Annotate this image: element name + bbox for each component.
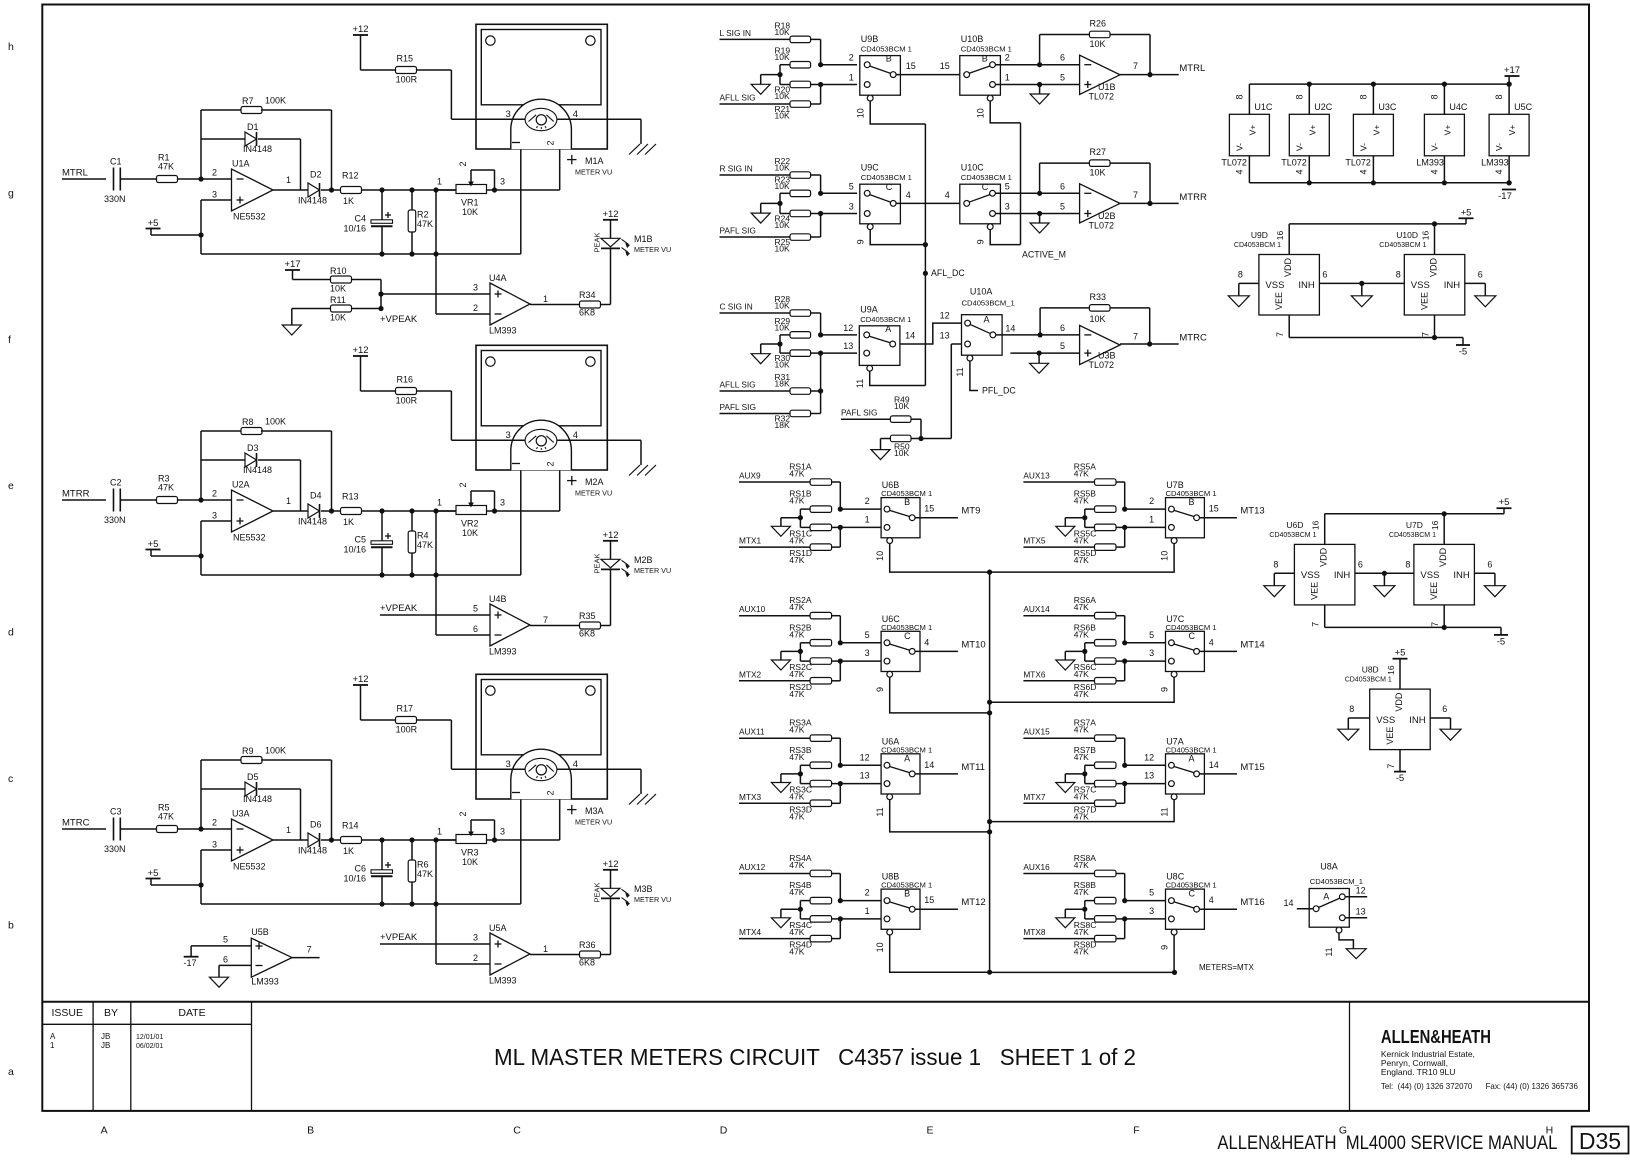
svg-text:2: 2 xyxy=(546,790,556,795)
svg-text:13: 13 xyxy=(843,341,853,351)
svg-text:TL072: TL072 xyxy=(1281,158,1307,168)
svg-text:10: 10 xyxy=(875,942,885,952)
svg-text:10K: 10K xyxy=(775,27,790,37)
svg-text:V-: V- xyxy=(1234,143,1244,151)
svg-text:+5: +5 xyxy=(1499,497,1510,508)
svg-text:5: 5 xyxy=(1060,73,1065,83)
svg-text:6: 6 xyxy=(223,955,228,965)
svg-text:4: 4 xyxy=(1429,169,1439,174)
svg-text:MTX4: MTX4 xyxy=(739,927,762,937)
svg-text:13: 13 xyxy=(1144,771,1154,781)
svg-text:47K: 47K xyxy=(789,629,804,639)
svg-text:47K: 47K xyxy=(789,860,804,870)
svg-text:MTX8: MTX8 xyxy=(1023,927,1046,937)
svg-text:1: 1 xyxy=(50,1041,55,1050)
svg-text:MTX7: MTX7 xyxy=(1023,792,1046,802)
svg-text:U1C: U1C xyxy=(1254,102,1273,112)
svg-text:10K: 10K xyxy=(1090,168,1106,178)
svg-text:+12: +12 xyxy=(352,674,368,685)
svg-text:11: 11 xyxy=(955,367,965,376)
svg-text:4: 4 xyxy=(1209,637,1214,647)
svg-text:H: H xyxy=(1546,1125,1554,1137)
svg-text:100R: 100R xyxy=(396,725,418,735)
svg-text:+5: +5 xyxy=(148,539,159,550)
svg-text:V-: V- xyxy=(1494,143,1504,151)
svg-text:VR3: VR3 xyxy=(461,848,479,858)
svg-text:10/16: 10/16 xyxy=(343,545,366,555)
svg-text:R4: R4 xyxy=(417,531,429,541)
svg-text:C1: C1 xyxy=(110,157,122,167)
svg-text:6: 6 xyxy=(1478,269,1483,279)
svg-text:47K: 47K xyxy=(789,689,804,699)
svg-text:10K: 10K xyxy=(775,301,790,311)
svg-text:LM393: LM393 xyxy=(489,647,517,657)
svg-text:10K: 10K xyxy=(775,360,790,370)
svg-text:47K: 47K xyxy=(1074,689,1089,699)
svg-text:6: 6 xyxy=(1060,323,1065,333)
svg-text:14: 14 xyxy=(905,330,915,340)
svg-text:METER VU: METER VU xyxy=(575,818,612,827)
svg-text:6: 6 xyxy=(473,624,478,634)
svg-text:D3: D3 xyxy=(247,443,259,453)
svg-text:11: 11 xyxy=(1324,947,1334,956)
svg-text:3: 3 xyxy=(1005,202,1010,212)
svg-text:VDD: VDD xyxy=(1438,547,1448,567)
svg-text:10K: 10K xyxy=(894,401,909,411)
svg-text:47K: 47K xyxy=(1074,496,1089,506)
svg-text:VEE: VEE xyxy=(1385,727,1395,745)
svg-text:3: 3 xyxy=(473,283,478,293)
svg-text:5: 5 xyxy=(223,935,228,945)
svg-text:47K: 47K xyxy=(789,752,804,762)
svg-text:3: 3 xyxy=(506,109,511,120)
svg-text:2: 2 xyxy=(473,953,478,963)
svg-text:LM393: LM393 xyxy=(1416,158,1444,168)
svg-text:PEAK: PEAK xyxy=(593,232,602,252)
svg-text:+5: +5 xyxy=(1461,207,1472,218)
svg-text:10K: 10K xyxy=(775,163,790,173)
svg-text:CD4053BCM_1: CD4053BCM_1 xyxy=(962,299,1015,308)
svg-text:METER VU: METER VU xyxy=(575,489,612,498)
svg-text:A: A xyxy=(984,315,990,325)
svg-text:AFL_DC: AFL_DC xyxy=(931,268,965,278)
svg-text:+17: +17 xyxy=(1504,65,1520,76)
svg-text:+5: +5 xyxy=(1395,648,1406,659)
svg-text:8: 8 xyxy=(1396,269,1401,279)
svg-text:LM393: LM393 xyxy=(489,976,517,986)
svg-text:L SIG IN: L SIG IN xyxy=(720,28,752,38)
svg-text:AFLL SIG: AFLL SIG xyxy=(720,380,756,390)
svg-text:VSS: VSS xyxy=(1376,715,1395,726)
svg-text:METER VU: METER VU xyxy=(634,566,671,575)
svg-text:ML MASTER METERS CIRCUIT C43: ML MASTER METERS CIRCUIT C4357 issue 1 S… xyxy=(494,1044,1136,1070)
svg-text:100K: 100K xyxy=(265,417,286,427)
svg-text:Tel: (44) (0) 1326 372070: Tel: (44) (0) 1326 372070 Fax: (44) (0) … xyxy=(1381,1081,1578,1091)
svg-text:R2: R2 xyxy=(417,210,429,220)
svg-text:-5: -5 xyxy=(1396,773,1404,784)
svg-text:U9D: U9D xyxy=(1251,230,1268,240)
svg-text:V-: V- xyxy=(1358,143,1368,151)
svg-text:4: 4 xyxy=(573,109,578,120)
svg-text:a: a xyxy=(8,1066,14,1078)
svg-text:100R: 100R xyxy=(396,396,418,406)
svg-text:-17: -17 xyxy=(1498,191,1512,202)
svg-text:2: 2 xyxy=(458,811,468,816)
svg-text:U2C: U2C xyxy=(1314,102,1333,112)
svg-text:14: 14 xyxy=(924,760,934,770)
svg-text:VDD: VDD xyxy=(1283,257,1293,277)
svg-text:47K: 47K xyxy=(789,725,804,735)
svg-text:+VPEAK: +VPEAK xyxy=(380,314,418,325)
svg-text:15: 15 xyxy=(940,61,950,71)
svg-text:10: 10 xyxy=(975,108,985,118)
svg-text:330N: 330N xyxy=(104,194,126,204)
svg-text:M3B: M3B xyxy=(634,884,653,894)
svg-text:JB: JB xyxy=(101,1041,110,1050)
svg-text:R13: R13 xyxy=(342,492,359,502)
svg-text:15: 15 xyxy=(924,504,934,514)
svg-text:2: 2 xyxy=(212,818,217,828)
svg-text:D1: D1 xyxy=(247,122,259,132)
svg-text:15: 15 xyxy=(1209,504,1219,514)
svg-text:47K: 47K xyxy=(1074,792,1089,802)
svg-text:TL072: TL072 xyxy=(1089,221,1115,231)
svg-text:10K: 10K xyxy=(775,52,790,62)
svg-text:C: C xyxy=(1189,631,1196,641)
svg-text:47K: 47K xyxy=(789,887,804,897)
svg-text:11: 11 xyxy=(1160,807,1170,816)
svg-text:9: 9 xyxy=(1160,687,1170,692)
svg-text:47K: 47K xyxy=(1074,725,1089,735)
svg-text:MT14: MT14 xyxy=(1240,639,1264,650)
svg-text:AUX11: AUX11 xyxy=(739,727,765,737)
svg-text:3: 3 xyxy=(500,177,505,187)
svg-text:CD4053BCM 1: CD4053BCM 1 xyxy=(861,45,912,54)
svg-text:1: 1 xyxy=(1005,73,1010,83)
svg-text:IN4148: IN4148 xyxy=(298,846,327,856)
svg-text:MTRL: MTRL xyxy=(62,168,88,179)
svg-text:V+: V+ xyxy=(1442,125,1452,136)
svg-text:U10C: U10C xyxy=(961,163,985,173)
svg-text:47K: 47K xyxy=(789,792,804,802)
svg-text:V+: V+ xyxy=(1371,125,1381,136)
svg-text:14: 14 xyxy=(1283,898,1293,908)
svg-text:METERS=MTX: METERS=MTX xyxy=(1199,963,1255,972)
svg-text:12/01/01: 12/01/01 xyxy=(136,1034,163,1041)
svg-text:10K: 10K xyxy=(462,207,478,217)
svg-text:10K: 10K xyxy=(775,111,790,121)
svg-text:11: 11 xyxy=(875,807,885,816)
svg-text:B: B xyxy=(886,54,892,64)
svg-text:5: 5 xyxy=(1149,888,1154,898)
svg-text:R6: R6 xyxy=(417,860,429,870)
svg-text:MTRC: MTRC xyxy=(1179,333,1207,344)
svg-text:1: 1 xyxy=(543,294,548,304)
svg-text:R26: R26 xyxy=(1090,19,1107,29)
svg-text:CD4053BCM 1: CD4053BCM 1 xyxy=(860,315,911,324)
svg-text:3: 3 xyxy=(473,933,478,943)
svg-text:330N: 330N xyxy=(104,844,126,854)
svg-text:2: 2 xyxy=(458,482,468,487)
svg-text:16: 16 xyxy=(1430,520,1440,530)
svg-text:VR2: VR2 xyxy=(461,519,479,529)
svg-text:METER VU: METER VU xyxy=(634,245,671,254)
svg-text:U1B: U1B xyxy=(1098,82,1116,92)
svg-text:d: d xyxy=(8,627,14,639)
svg-text:M3A: M3A xyxy=(585,806,604,816)
svg-text:A: A xyxy=(1323,892,1329,902)
svg-text:9: 9 xyxy=(1160,945,1170,950)
svg-text:MTRL: MTRL xyxy=(1179,63,1205,74)
svg-text:B: B xyxy=(904,497,910,507)
svg-text:3: 3 xyxy=(212,511,217,521)
svg-text:U4C: U4C xyxy=(1449,102,1468,112)
svg-text:10: 10 xyxy=(875,551,885,561)
svg-text:2: 2 xyxy=(1149,496,1154,506)
svg-text:MT12: MT12 xyxy=(961,897,985,908)
svg-text:MT9: MT9 xyxy=(961,506,980,517)
svg-text:R14: R14 xyxy=(342,821,359,831)
svg-text:INH: INH xyxy=(1298,280,1315,291)
svg-text:47K: 47K xyxy=(1074,555,1089,565)
svg-text:2: 2 xyxy=(212,168,217,178)
svg-text:12: 12 xyxy=(1144,752,1154,762)
svg-text:12: 12 xyxy=(940,311,950,321)
svg-text:+12: +12 xyxy=(602,859,618,870)
svg-text:9: 9 xyxy=(855,239,865,244)
svg-text:VEE: VEE xyxy=(1420,292,1430,310)
svg-text:TL072: TL072 xyxy=(1089,92,1115,102)
svg-text:100K: 100K xyxy=(265,96,286,106)
svg-text:10: 10 xyxy=(855,108,865,118)
svg-text:6K8: 6K8 xyxy=(579,308,595,318)
svg-text:5: 5 xyxy=(849,181,854,191)
svg-text:100R: 100R xyxy=(396,75,418,85)
svg-text:VDD: VDD xyxy=(1429,257,1439,277)
svg-text:4: 4 xyxy=(1494,169,1504,174)
svg-text:IN4148: IN4148 xyxy=(243,794,272,804)
svg-text:5: 5 xyxy=(1060,202,1065,212)
svg-text:V-: V- xyxy=(1429,143,1439,151)
svg-text:4: 4 xyxy=(1234,169,1244,174)
svg-text:h: h xyxy=(8,41,14,53)
svg-text:M1A: M1A xyxy=(585,156,604,166)
svg-text:M2A: M2A xyxy=(585,477,604,487)
svg-text:C: C xyxy=(886,182,893,192)
svg-text:3: 3 xyxy=(212,840,217,850)
svg-text:6: 6 xyxy=(1358,559,1363,569)
svg-text:A: A xyxy=(101,1125,108,1137)
svg-text:R12: R12 xyxy=(342,171,359,181)
svg-text:47K: 47K xyxy=(1074,860,1089,870)
svg-text:16: 16 xyxy=(1421,231,1431,241)
svg-text:2: 2 xyxy=(849,53,854,63)
svg-text:15: 15 xyxy=(924,895,934,905)
svg-text:18K: 18K xyxy=(775,420,790,430)
svg-text:2: 2 xyxy=(546,461,556,466)
svg-text:+17: +17 xyxy=(284,259,300,270)
svg-text:A: A xyxy=(885,324,891,334)
svg-text:ISSUE: ISSUE xyxy=(51,1007,83,1019)
svg-text:8: 8 xyxy=(1238,269,1243,279)
svg-text:2: 2 xyxy=(546,140,556,145)
svg-text:A: A xyxy=(904,753,910,763)
svg-text:1: 1 xyxy=(286,175,291,185)
svg-text:g: g xyxy=(8,187,14,199)
svg-text:A: A xyxy=(50,1032,56,1041)
svg-text:U5A: U5A xyxy=(489,923,507,933)
svg-text:R11: R11 xyxy=(330,295,346,305)
svg-text:V+: V+ xyxy=(1507,125,1517,136)
svg-text:10K: 10K xyxy=(462,857,478,867)
svg-text:AFLL SIG: AFLL SIG xyxy=(720,93,756,103)
svg-text:47K: 47K xyxy=(789,669,804,679)
svg-text:13: 13 xyxy=(860,771,870,781)
svg-text:C: C xyxy=(1189,889,1196,899)
svg-text:VDD: VDD xyxy=(1394,692,1404,712)
svg-text:AUX13: AUX13 xyxy=(1023,471,1050,481)
svg-text:c: c xyxy=(8,773,13,785)
svg-text:47K: 47K xyxy=(417,869,433,879)
svg-text:VSS: VSS xyxy=(1301,570,1320,581)
svg-text:U8A: U8A xyxy=(1320,862,1338,872)
svg-text:3: 3 xyxy=(849,202,854,212)
svg-text:DATE: DATE xyxy=(178,1007,205,1019)
svg-text:R34: R34 xyxy=(579,290,596,300)
svg-text:R10: R10 xyxy=(330,266,347,276)
svg-text:U2B: U2B xyxy=(1098,211,1116,221)
svg-text:10K: 10K xyxy=(462,528,478,538)
svg-text:MT15: MT15 xyxy=(1240,762,1264,773)
svg-text:MTRC: MTRC xyxy=(62,818,90,829)
svg-text:47K: 47K xyxy=(789,496,804,506)
svg-text:U10B: U10B xyxy=(961,34,984,44)
svg-text:47K: 47K xyxy=(789,469,804,479)
svg-text:14: 14 xyxy=(1005,324,1015,334)
svg-text:13: 13 xyxy=(1356,907,1366,917)
svg-text:MTX5: MTX5 xyxy=(1023,536,1046,546)
svg-text:14: 14 xyxy=(1209,760,1219,770)
svg-text:D2: D2 xyxy=(310,170,322,180)
svg-text:+5: +5 xyxy=(148,868,159,879)
svg-text:R8: R8 xyxy=(242,417,254,427)
svg-text:LM393: LM393 xyxy=(251,977,279,987)
svg-text:C: C xyxy=(982,182,989,192)
svg-text:England. TR10 9LU: England. TR10 9LU xyxy=(1381,1067,1456,1077)
svg-text:R16: R16 xyxy=(397,375,414,385)
svg-text:1: 1 xyxy=(286,496,291,506)
svg-text:CD4053BCM 1: CD4053BCM 1 xyxy=(1389,532,1436,539)
svg-text:7: 7 xyxy=(1386,764,1396,769)
svg-text:V+: V+ xyxy=(1247,125,1257,136)
svg-text:MTX2: MTX2 xyxy=(739,669,762,679)
svg-text:7: 7 xyxy=(1421,332,1431,337)
svg-text:3: 3 xyxy=(506,759,511,770)
svg-text:R35: R35 xyxy=(579,611,596,621)
svg-text:INH: INH xyxy=(1453,570,1470,581)
svg-text:C SIG IN: C SIG IN xyxy=(720,302,753,312)
svg-text:12: 12 xyxy=(860,752,870,762)
svg-text:B: B xyxy=(307,1125,314,1137)
svg-text:CD4053BCM 1: CD4053BCM 1 xyxy=(1234,242,1281,249)
svg-text:METER VU: METER VU xyxy=(575,168,612,177)
svg-text:1: 1 xyxy=(437,177,442,187)
svg-text:C: C xyxy=(513,1125,521,1137)
svg-text:7: 7 xyxy=(1275,332,1285,337)
svg-text:10K: 10K xyxy=(894,448,909,458)
svg-text:R17: R17 xyxy=(397,704,414,714)
svg-text:IN4148: IN4148 xyxy=(298,517,327,527)
svg-text:7: 7 xyxy=(543,615,548,625)
svg-text:M2B: M2B xyxy=(634,555,653,565)
svg-text:INH: INH xyxy=(1444,280,1461,291)
svg-text:1: 1 xyxy=(1149,514,1154,524)
svg-text:U10A: U10A xyxy=(970,287,993,297)
svg-text:47K: 47K xyxy=(1074,535,1089,545)
svg-text:MTX3: MTX3 xyxy=(739,792,762,802)
svg-text:U10D: U10D xyxy=(1396,230,1418,240)
svg-text:+5: +5 xyxy=(148,218,159,229)
svg-text:1: 1 xyxy=(437,827,442,837)
svg-text:+12: +12 xyxy=(352,24,368,35)
svg-text:D5: D5 xyxy=(247,772,259,782)
svg-text:CD4053BCM 1: CD4053BCM 1 xyxy=(1345,677,1392,684)
svg-text:330N: 330N xyxy=(104,515,126,525)
svg-text:PEAK: PEAK xyxy=(593,882,602,902)
svg-text:2: 2 xyxy=(865,496,870,506)
svg-text:C4: C4 xyxy=(354,214,366,224)
svg-text:CD4053BCM 1: CD4053BCM 1 xyxy=(1379,242,1426,249)
svg-text:+12: +12 xyxy=(602,530,618,541)
svg-text:U3C: U3C xyxy=(1378,102,1397,112)
svg-text:C5: C5 xyxy=(354,535,366,545)
svg-text:9: 9 xyxy=(875,687,885,692)
svg-text:2: 2 xyxy=(458,161,468,166)
svg-text:MT10: MT10 xyxy=(961,639,985,650)
svg-text:VSS: VSS xyxy=(1411,280,1430,291)
svg-text:8: 8 xyxy=(1494,94,1504,99)
svg-text:e: e xyxy=(8,480,14,492)
svg-text:AUX10: AUX10 xyxy=(739,604,766,614)
svg-text:VEE: VEE xyxy=(1310,582,1320,600)
svg-text:U6D: U6D xyxy=(1286,520,1303,530)
svg-text:10K: 10K xyxy=(1090,314,1106,324)
svg-text:4: 4 xyxy=(1358,169,1368,174)
svg-text:C: C xyxy=(904,631,911,641)
svg-text:CD4053BCM 1: CD4053BCM 1 xyxy=(861,173,912,182)
svg-text:B: B xyxy=(1189,497,1195,507)
svg-text:5: 5 xyxy=(865,630,870,640)
svg-text:5: 5 xyxy=(1060,341,1065,351)
svg-text:U5C: U5C xyxy=(1514,102,1533,112)
svg-text:47K: 47K xyxy=(789,927,804,937)
svg-text:R33: R33 xyxy=(1090,292,1107,302)
svg-text:16: 16 xyxy=(1386,665,1396,675)
svg-text:10K: 10K xyxy=(775,220,790,230)
svg-text:R7: R7 xyxy=(242,96,254,106)
svg-text:MTX1: MTX1 xyxy=(739,536,762,546)
svg-text:47K: 47K xyxy=(1074,469,1089,479)
svg-text:8: 8 xyxy=(1294,94,1304,99)
svg-text:6K8: 6K8 xyxy=(579,629,595,639)
svg-text:12: 12 xyxy=(843,323,853,333)
svg-text:2: 2 xyxy=(473,303,478,313)
svg-text:U7D: U7D xyxy=(1406,520,1423,530)
svg-text:10K: 10K xyxy=(1090,39,1106,49)
svg-text:2: 2 xyxy=(1005,53,1010,63)
svg-text:12: 12 xyxy=(1356,886,1366,896)
svg-text:2: 2 xyxy=(212,489,217,499)
